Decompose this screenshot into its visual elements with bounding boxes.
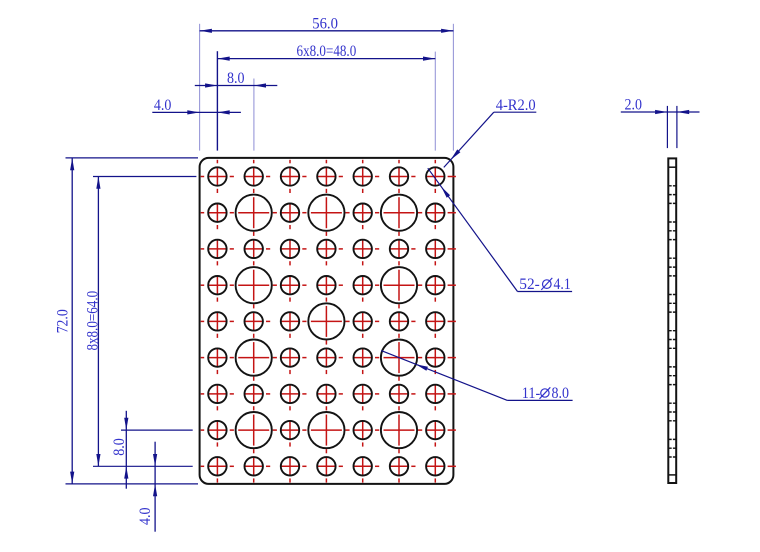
svg-text:8.0: 8.0 — [227, 70, 245, 87]
svg-text:52-: 52- — [519, 276, 540, 293]
svg-text:8.0: 8.0 — [111, 438, 128, 456]
svg-text:4.0: 4.0 — [137, 507, 154, 525]
svg-text:8x8.0=64.0: 8x8.0=64.0 — [84, 291, 101, 351]
svg-text:11-: 11- — [522, 385, 541, 402]
svg-text:56.0: 56.0 — [312, 15, 338, 32]
svg-text:72.0: 72.0 — [55, 309, 72, 333]
svg-text:8.0: 8.0 — [552, 385, 570, 402]
svg-text:2.0: 2.0 — [624, 97, 642, 114]
svg-text:6x8.0=48.0: 6x8.0=48.0 — [297, 43, 357, 60]
svg-text:4-R2.0: 4-R2.0 — [496, 97, 536, 114]
svg-text:4.0: 4.0 — [154, 97, 172, 114]
svg-text:4.1: 4.1 — [554, 276, 571, 293]
